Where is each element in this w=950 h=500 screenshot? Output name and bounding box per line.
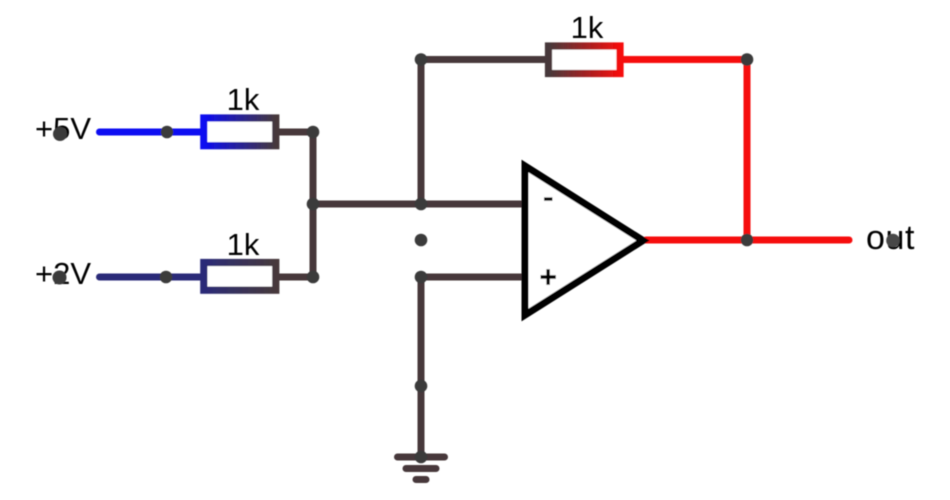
node dot: +2V terminal [53,271,67,285]
ground [398,457,445,480]
wire: red vertical from feedback to output [744,60,751,241]
node dot: non-inverting row [415,271,428,284]
wire: feedback top-right red segment [620,56,747,63]
node dot: feedback top-right corner [741,53,754,66]
node dot: +5V terminal [53,127,67,141]
node dot: left bus / R2 lead [307,271,320,284]
wire: R2 right lead [275,274,314,281]
svg-text:1k: 1k [227,227,260,262]
wire: feedback top-left dark segment [421,56,549,63]
wire: output red [646,237,849,244]
svg-text:1k: 1k [571,10,604,45]
wire: +5V blue input wire [100,129,206,136]
wire: left vertical bus [310,132,317,277]
node dot: op-amp center reference [415,234,428,247]
resistor Rf 1k (feedback) [549,10,621,74]
node dot: output junction [741,234,754,247]
resistor R2 1k (+2V input) [204,227,276,290]
node dot: ground top bar [415,451,428,464]
node dot: ground wire middle [415,380,428,393]
node dot: out terminal [886,234,900,248]
node dot: +2V wire junction [160,271,173,284]
wire: R1 right lead [275,129,314,136]
node dot: middle vertical / inverting row [415,198,428,211]
resistor R1 1k (+5V input) [204,82,276,146]
wire: ground vertical [418,277,425,457]
node dot: feedback top-left corner [415,53,428,66]
wire: +2V navy input wire [100,274,206,281]
op-amp U1 [525,166,643,315]
wire: inverting input horizontal [313,201,524,208]
node dot: left bus / inverting row [307,198,320,211]
wire: middle vertical (feedback to inverting node) [418,60,425,205]
wire: non-inverting input horizontal [421,274,524,281]
node dot: R1 output node [307,126,320,139]
svg-text:1k: 1k [227,82,260,117]
node dot: +5V wire junction [161,126,174,139]
